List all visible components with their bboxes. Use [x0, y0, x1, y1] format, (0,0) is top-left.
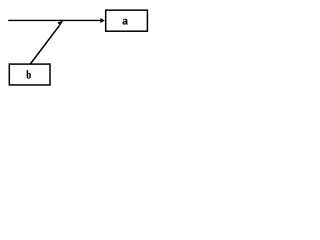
wire: horizontal edge into node a — [8, 19, 101, 21]
node A box — [106, 10, 148, 31]
arrowhead onto horizontal wire — [58, 21, 64, 26]
node A label "a" (Liberation Serif Bold outline) — [123, 19, 128, 25]
node B box — [9, 64, 50, 85]
wire: diagonal edge from node b — [30, 25, 59, 64]
arrowhead into node a — [100, 18, 105, 23]
node B label "b" (Liberation Serif Bold outline) — [26, 70, 30, 78]
